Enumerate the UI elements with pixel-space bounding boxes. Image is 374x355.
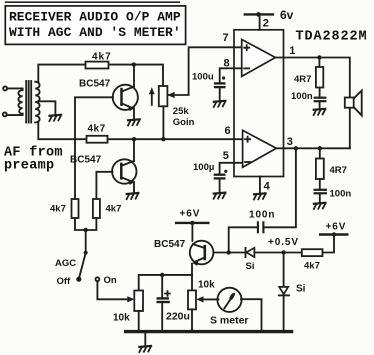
svg-text:4R7: 4R7 xyxy=(294,74,311,85)
svg-text:BC547: BC547 xyxy=(70,155,102,166)
svg-text:+0.5V: +0.5V xyxy=(268,237,299,248)
svg-text:4k7: 4k7 xyxy=(304,261,320,272)
svg-text:Si: Si xyxy=(246,261,255,272)
svg-text:10k: 10k xyxy=(113,313,130,324)
svg-text:3: 3 xyxy=(287,136,293,148)
svg-text:4R7: 4R7 xyxy=(330,165,347,176)
svg-text:220u: 220u xyxy=(166,311,190,323)
svg-text:100u: 100u xyxy=(192,72,214,83)
svg-text:4k7: 4k7 xyxy=(50,204,66,215)
svg-text:10k: 10k xyxy=(198,280,215,291)
svg-text:6v: 6v xyxy=(280,8,294,22)
svg-text:1: 1 xyxy=(289,45,295,57)
svg-text:Si: Si xyxy=(296,284,306,295)
svg-text:100n: 100n xyxy=(291,91,313,102)
svg-text:4k7: 4k7 xyxy=(88,124,106,135)
svg-text:5: 5 xyxy=(223,150,229,162)
svg-text:100n: 100n xyxy=(330,189,352,200)
svg-text:On: On xyxy=(104,275,117,286)
svg-text:25k: 25k xyxy=(173,106,190,117)
svg-text:Off: Off xyxy=(57,276,72,287)
svg-text:RECEIVER AUDIO O/P AMP: RECEIVER AUDIO O/P AMP xyxy=(9,10,181,25)
svg-text:preamp: preamp xyxy=(4,158,54,173)
svg-text:WITH AGC AND 'S METER': WITH AGC AND 'S METER' xyxy=(9,25,181,40)
svg-text:S meter: S meter xyxy=(210,315,249,327)
svg-text:100µ: 100µ xyxy=(193,162,214,173)
svg-text:4k7: 4k7 xyxy=(106,204,122,215)
svg-text:100n: 100n xyxy=(249,210,275,221)
svg-text:BC547: BC547 xyxy=(79,79,111,90)
svg-text:TDA2822M: TDA2822M xyxy=(296,30,368,45)
svg-text:+6V: +6V xyxy=(180,209,201,220)
svg-text:2: 2 xyxy=(263,18,269,30)
svg-text:4k7: 4k7 xyxy=(92,52,112,63)
svg-text:Goin: Goin xyxy=(173,117,195,128)
svg-text:6: 6 xyxy=(225,125,231,137)
svg-text:4: 4 xyxy=(264,181,271,193)
svg-text:7: 7 xyxy=(223,32,229,44)
svg-text:AGC: AGC xyxy=(55,258,76,269)
svg-text:BC547: BC547 xyxy=(154,239,186,250)
svg-text:+6V: +6V xyxy=(326,221,347,232)
